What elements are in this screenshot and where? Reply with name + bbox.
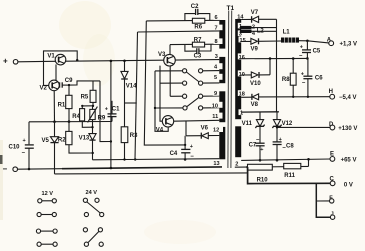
svg-text:C1: C1 xyxy=(112,106,120,112)
secondary pin label 10 xyxy=(238,70,247,77)
wire: 0V rail xyxy=(248,167,331,184)
wire: pin10 stub xyxy=(203,107,220,109)
wire: zener top rail from pin 1 xyxy=(241,111,279,113)
wire: pin5 stub xyxy=(203,82,220,84)
wire: V7 riser down to zener rail xyxy=(276,19,278,112)
pin label 13 xyxy=(213,161,219,167)
svg-text:R5: R5 xyxy=(81,95,89,101)
resistor R6 xyxy=(192,18,204,30)
svg-text:+1,3 V: +1,3 V xyxy=(340,41,358,47)
pin label 3 xyxy=(214,53,219,60)
wire: R5 box right edge xyxy=(100,81,111,142)
svg-text:V5: V5 xyxy=(42,138,50,144)
svg-text:+: + xyxy=(260,147,263,153)
svg-text:C10: C10 xyxy=(9,145,21,151)
svg-text:L2: L2 xyxy=(257,28,265,34)
svg-text:10: 10 xyxy=(212,103,218,109)
wire: transformer pin 6 with R6/C2 snubber xyxy=(146,19,219,22)
wire: V10 riser to 16 rail xyxy=(269,59,271,75)
wire: jog from V14 branch to x=134 vertical xyxy=(125,102,137,104)
resistor R5 xyxy=(81,81,96,106)
pin label 5 xyxy=(213,74,223,81)
svg-text:R8: R8 xyxy=(282,77,290,83)
resistor R3 xyxy=(121,127,138,143)
resistor R4 xyxy=(72,106,92,127)
wire: main rail V1 to transformer pin 3 xyxy=(44,60,220,62)
wire: pin 16 rail xyxy=(241,57,307,59)
capacitor C2 xyxy=(185,4,210,21)
terminal J xyxy=(330,212,334,220)
zener V12 xyxy=(272,112,293,128)
diode V13 xyxy=(79,134,97,160)
capacitor C9 xyxy=(60,78,74,88)
vertical bus from rail at x=110.9 xyxy=(110,61,112,168)
terminal H -5,4 V xyxy=(329,89,357,101)
secondary pin label 1 xyxy=(238,23,243,30)
resistor R11 xyxy=(284,163,301,179)
transistor V2 xyxy=(40,80,60,91)
diode V7 xyxy=(251,10,277,23)
svg-text:V2: V2 xyxy=(40,85,48,91)
svg-text:7: 7 xyxy=(215,25,218,31)
resistor R7 xyxy=(192,37,204,47)
svg-text:V1: V1 xyxy=(47,54,55,60)
svg-text:0 V: 0 V xyxy=(344,183,353,189)
svg-text:3: 3 xyxy=(215,54,218,60)
wire: V8 to terminal H xyxy=(259,96,330,98)
transformer T1 secondary winding bar xyxy=(235,19,241,157)
wire: V3 base bus down to V4 xyxy=(160,66,162,122)
svg-text:+: + xyxy=(105,107,108,113)
minus input terminal xyxy=(3,165,18,174)
svg-text:R3: R3 xyxy=(130,133,138,139)
resistor R10 xyxy=(248,164,273,183)
secondary pin label 3 xyxy=(238,30,243,37)
transformer core xyxy=(228,11,232,169)
svg-text:R2: R2 xyxy=(58,138,66,144)
diode V14 branch vertical x=124.5 xyxy=(124,61,126,160)
svg-text:15: 15 xyxy=(240,38,246,44)
secondary pin label 14 xyxy=(237,14,244,20)
svg-text:−5,4 V: −5,4 V xyxy=(339,95,357,101)
transformer T1 primary winding bar xyxy=(219,20,225,159)
scan stains xyxy=(0,1,216,244)
svg-text:R11: R11 xyxy=(284,173,295,179)
svg-text:T1: T1 xyxy=(227,5,235,12)
secondary pin label 18 xyxy=(238,90,247,97)
wire: V3 emitter down to switch row3 xyxy=(169,66,171,96)
svg-text:+: + xyxy=(3,57,8,66)
wire: pin 12 line xyxy=(186,135,201,137)
svg-text:R10: R10 xyxy=(257,177,269,183)
wire: R5/R4/R9 junction xyxy=(82,105,93,107)
terminal D +130 V xyxy=(329,122,357,132)
svg-text:C4: C4 xyxy=(170,151,178,157)
pin label 6 xyxy=(214,15,220,22)
pin label 12 xyxy=(213,126,224,133)
diode V5 xyxy=(42,122,59,174)
wire: V1 emitter to V2 collector xyxy=(55,64,57,80)
svg-text:−: − xyxy=(302,80,306,86)
capacitor C10 xyxy=(9,122,34,171)
diode V6 xyxy=(201,126,220,139)
inductor L1 xyxy=(281,29,307,42)
wire: drop to V6 line xyxy=(185,121,187,136)
wire: V1 box left edge down to V2 base xyxy=(44,61,49,85)
resistor R8 xyxy=(282,57,296,97)
svg-text:2: 2 xyxy=(252,25,255,31)
secondary pin label 16 xyxy=(238,53,247,60)
svg-text:12: 12 xyxy=(213,127,219,133)
diode V14 xyxy=(121,71,137,89)
transistor V3 xyxy=(158,45,175,66)
terminal C 0 V xyxy=(330,176,353,188)
wire: transformer pin 8 xyxy=(170,43,219,45)
inductor L2 xyxy=(240,25,277,38)
wire: + rail to V1 box xyxy=(18,60,44,62)
capacitor C1 xyxy=(105,101,120,122)
wire: pin9 stub xyxy=(203,95,220,97)
diode V9 xyxy=(251,38,282,52)
pin label 8 xyxy=(214,38,223,45)
svg-text:V8: V8 xyxy=(251,102,259,108)
resistor R2 xyxy=(58,131,93,153)
wire: C10/V5 bias wire y=122 xyxy=(29,121,112,123)
svg-text:9: 9 xyxy=(214,91,217,97)
capacitor C5 xyxy=(299,41,321,60)
wire: branch to terminals F and J xyxy=(316,183,330,217)
terminal F xyxy=(316,195,334,203)
plus input terminal xyxy=(3,57,18,66)
wire: pin 2 wire xyxy=(235,165,309,168)
legend 12 V links xyxy=(36,191,57,246)
svg-text:C9: C9 xyxy=(65,78,73,84)
svg-text:V12: V12 xyxy=(282,121,293,127)
svg-text:+: + xyxy=(23,138,26,144)
svg-text:R6: R6 xyxy=(194,25,202,31)
svg-text:16: 16 xyxy=(239,55,245,61)
capacitor C7 xyxy=(249,138,265,162)
transistor V4 xyxy=(156,116,174,134)
wire: V2 emitter down to bias wire xyxy=(53,91,55,122)
secondary pin label 15 xyxy=(239,36,248,43)
switch S1 contacts xyxy=(183,69,203,85)
pin label 4 xyxy=(213,63,223,70)
resistor R1 xyxy=(58,95,72,131)
wire: switch row4 xyxy=(155,107,183,109)
svg-text:V6: V6 xyxy=(201,126,209,132)
vertical bus x=155 rows1-4 xyxy=(155,71,168,131)
wire: minus rail xyxy=(18,168,63,171)
svg-text:V11: V11 xyxy=(242,121,253,127)
pin label 10 xyxy=(212,102,223,110)
wire: C9 node to R5 box top xyxy=(69,81,100,85)
wire: pin 10 to diode V10 xyxy=(241,74,251,76)
wire: +65V rail to terminal E xyxy=(241,159,330,160)
svg-text:C6: C6 xyxy=(315,75,323,81)
wire: C9 to R1 top xyxy=(68,85,70,95)
terminal E +65 V xyxy=(330,151,356,163)
diode V10 xyxy=(250,72,270,87)
wire: V4 emitter to pin 11 xyxy=(174,119,220,122)
secondary pin label 2 xyxy=(235,162,238,168)
wire: pin 13 lower wire y=159 xyxy=(93,159,220,160)
svg-text:13: 13 xyxy=(213,161,219,167)
capacitor C3 xyxy=(185,44,211,59)
pin label 7 xyxy=(214,25,223,32)
svg-text:+130 V: +130 V xyxy=(338,126,357,132)
wire: V12 to terminal D xyxy=(277,126,330,127)
svg-text:C3: C3 xyxy=(194,54,202,60)
node at V1 box right edge on rail xyxy=(76,59,78,61)
diode V8 xyxy=(251,94,259,108)
capacitor C6 xyxy=(301,58,323,96)
wire: L1 to terminal A xyxy=(307,41,328,43)
svg-text:R9: R9 xyxy=(98,115,106,121)
wire: switch row2 xyxy=(160,82,183,84)
node C9/R1 xyxy=(68,84,70,86)
svg-text:18: 18 xyxy=(239,91,245,97)
svg-text:V4: V4 xyxy=(156,128,164,134)
node junction at V5 branch xyxy=(53,120,56,123)
node junction at R1/R2 branch xyxy=(68,120,71,123)
wire: switch row1 xyxy=(155,70,183,72)
svg-text:V13: V13 xyxy=(79,136,90,142)
svg-text:5: 5 xyxy=(214,75,217,81)
capacitor C4 xyxy=(170,136,195,161)
capacitor C8 xyxy=(273,126,295,161)
wire: lower rail 2 xyxy=(55,173,248,174)
wire: R11 riser to +65 rail xyxy=(308,159,310,166)
svg-text:V10: V10 xyxy=(250,81,261,87)
trimmer R9 xyxy=(88,106,106,134)
wire: pin 14 to diode V7 xyxy=(241,18,251,20)
legend 24 V links xyxy=(83,190,103,246)
svg-text:V14: V14 xyxy=(126,83,137,89)
vertical bus x=144.5 from pin6 wire xyxy=(144,21,185,145)
svg-text:+65 V: +65 V xyxy=(341,157,357,163)
svg-text:L1: L1 xyxy=(283,29,291,35)
wire: pin4 stub xyxy=(203,70,220,72)
svg-text:V9: V9 xyxy=(251,46,259,52)
svg-text:12 V: 12 V xyxy=(42,191,54,197)
svg-text:V7: V7 xyxy=(251,10,259,16)
wire: transformer pin 7 xyxy=(138,31,220,32)
transistor V1 xyxy=(44,51,78,65)
svg-text:11: 11 xyxy=(212,114,218,120)
switch S2 contacts xyxy=(183,94,203,110)
svg-text:C8: C8 xyxy=(286,144,294,150)
vertical bus x=136 from pin7 wire xyxy=(135,32,138,160)
svg-text:−: − xyxy=(3,165,8,174)
svg-text:C5: C5 xyxy=(313,49,321,55)
wire: pin 15 to diode V9 xyxy=(241,40,251,42)
svg-text:24 V: 24 V xyxy=(86,190,98,196)
pin label 11 xyxy=(212,113,223,121)
terminal A +1,3 V xyxy=(327,37,357,47)
svg-text:8: 8 xyxy=(215,39,218,45)
pin label 9 xyxy=(213,90,219,97)
svg-text:6: 6 xyxy=(215,15,218,21)
secondary pin label 1 (lower) xyxy=(239,109,244,116)
svg-text:−: − xyxy=(22,151,26,157)
svg-text:+: + xyxy=(190,144,193,150)
zener V11 xyxy=(242,112,265,143)
wire: pin 18 to diode V8 xyxy=(241,96,252,98)
wire: switch row3 xyxy=(170,95,182,97)
svg-text:1: 1 xyxy=(240,110,243,116)
svg-text:R1: R1 xyxy=(58,102,66,108)
